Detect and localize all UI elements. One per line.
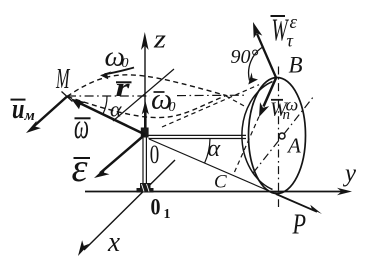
- svg-text:n: n: [283, 107, 291, 123]
- svg-text:0: 0: [151, 195, 161, 220]
- r radius label: [116, 81, 132, 83]
- bearing support at O1: [137, 183, 154, 193]
- svg-text:90°: 90°: [231, 46, 259, 68]
- disk main ellipse: [249, 78, 306, 194]
- shaft OA double line: [149, 134, 247, 136]
- M point tick: [62, 92, 73, 102]
- u_M velocity vector at M: [33, 97, 67, 128]
- diagonal dash-dot through A: [253, 96, 314, 173]
- vertical post double line: [142, 136, 144, 184]
- dash-dot horizontal axis through M: [67, 94, 247, 97]
- omega_0 bar label: [154, 91, 165, 93]
- omega_0 vector on z axis: [144, 108, 147, 128]
- svg-text:0: 0: [169, 100, 176, 115]
- y axis ground line: [85, 191, 345, 193]
- instantaneous axis line O-C-contact continued as force P arrow: [149, 139, 276, 194]
- vertical dash-dot through disk centre A: [278, 67, 280, 208]
- bearing block at O: [141, 128, 149, 138]
- svg-text:A: A: [286, 134, 301, 158]
- x axis: [84, 160, 175, 250]
- svg-text:z: z: [153, 25, 166, 54]
- svg-text:x: x: [107, 227, 121, 258]
- 90 degree arc at B: [249, 47, 264, 81]
- svg-text:B: B: [289, 53, 303, 78]
- svg-text:ε: ε: [72, 145, 88, 190]
- svg-text:τ: τ: [287, 31, 294, 51]
- svg-text:P: P: [292, 210, 306, 241]
- angle alpha arc at O: [205, 139, 211, 164]
- epsilon label: [74, 157, 91, 159]
- W_n label: [271, 99, 283, 101]
- svg-text:C: C: [214, 172, 227, 193]
- thin diagonal line through ellipse centre: [113, 69, 174, 121]
- svg-text:M: M: [55, 64, 70, 95]
- u_M label: [11, 99, 26, 101]
- dashed line O to B: [162, 85, 259, 127]
- dashed line C to B: [235, 78, 277, 172]
- svg-text:r: r: [116, 73, 131, 102]
- W_n acceleration vector at B: [264, 78, 277, 107]
- omega vector (bold along axis toward M): [80, 103, 145, 134]
- svg-text:м: м: [24, 108, 35, 124]
- W_tau label: [271, 15, 286, 17]
- svg-text:α: α: [208, 136, 221, 162]
- svg-text:y: y: [342, 160, 357, 187]
- W_tau acceleration vector at B: [257, 34, 276, 78]
- omega_0 rotation curved arrow: [105, 68, 135, 75]
- dashed segment from ellipse end toward A: [226, 96, 246, 107]
- point A circle: [279, 133, 285, 139]
- angle alpha arc at M: [103, 96, 107, 114]
- omega bar label: [75, 117, 91, 119]
- svg-text:ω: ω: [74, 106, 89, 146]
- disk rear rim arc: [242, 82, 273, 190]
- svg-text:u: u: [12, 93, 25, 125]
- z axis: [144, 38, 146, 128]
- svg-text:1: 1: [164, 207, 171, 222]
- dashed ellipse trajectory of M: [67, 75, 226, 118]
- svg-text:0: 0: [150, 140, 160, 169]
- epsilon vector at O: [100, 135, 145, 174]
